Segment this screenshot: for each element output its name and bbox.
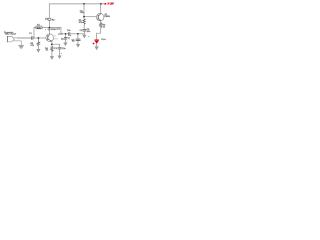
svg-text:Out: Out (101, 38, 106, 41)
svg-text:10u: 10u (61, 39, 64, 41)
svg-text:10u: 10u (59, 33, 62, 35)
svg-text:9-18V: 9-18V (108, 3, 115, 6)
svg-text:100k: 100k (37, 27, 41, 29)
svg-text:C3: C3 (67, 38, 69, 40)
svg-text:Q1: Q1 (54, 36, 56, 38)
svg-text:10u: 10u (72, 40, 75, 42)
svg-text:+: + (45, 29, 46, 31)
svg-text:2N39: 2N39 (54, 38, 58, 40)
svg-text:Q1 2N3904: Q1 2N3904 (48, 29, 58, 31)
svg-text:10u: 10u (81, 12, 84, 14)
svg-text:C4: C4 (80, 30, 82, 32)
svg-text:+: + (80, 12, 81, 14)
svg-text:2N3904: 2N3904 (104, 16, 110, 18)
svg-text:Mic Input: Mic Input (5, 33, 16, 36)
